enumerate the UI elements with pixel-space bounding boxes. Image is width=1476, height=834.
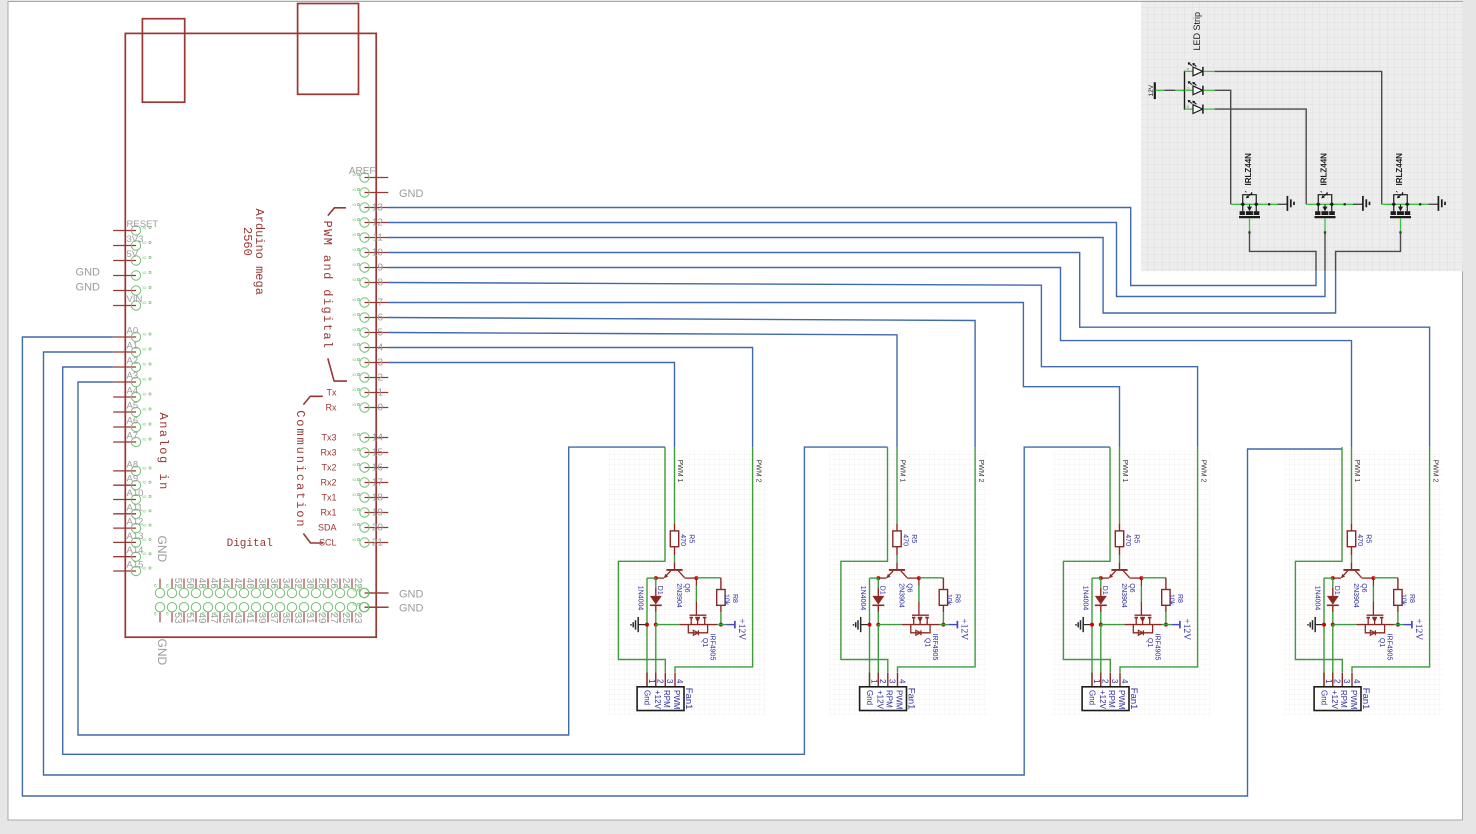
wire PWM1 net (fan3) (1119, 447, 1121, 523)
wire to +12V supply (fan2) (940, 624, 949, 626)
Arduino left pin A8 (113, 459, 151, 475)
svg-text:A0: A0 (127, 326, 139, 337)
Arduino bottom pin pair 7 (237, 578, 255, 624)
LED B (LED strip) (1185, 100, 1215, 114)
svg-text:11: 11 (373, 233, 384, 244)
wire +12V switched rail (fan2) (878, 624, 902, 626)
svg-text:Gnd: Gnd (643, 690, 652, 705)
wire LED anode bus (1184, 71, 1186, 110)
svg-text:io: io (143, 422, 147, 427)
svg-text:io: io (285, 584, 290, 588)
svg-text:io: io (143, 392, 147, 397)
svg-text:G: G (1187, 85, 1190, 90)
diode D1 1N4004 (fan1) (637, 578, 663, 612)
wire 12V to LED anodes (1156, 89, 1165, 91)
svg-text:io: io (201, 612, 206, 616)
svg-text:2N3904: 2N3904 (898, 583, 905, 608)
svg-text:+12V: +12V (876, 690, 885, 710)
wire net D10 to fan4 PWM2 (388, 253, 1430, 448)
svg-text:io: io (353, 277, 357, 282)
svg-text:io: io (353, 187, 357, 192)
svg-text:+12V: +12V (959, 618, 969, 640)
wire MOSFET Q4 source to ground (1429, 203, 1438, 205)
wire MOSFET Q2 source to ground (1278, 203, 1287, 205)
svg-text:0: 0 (377, 403, 383, 414)
Arduino right pin D1 (327, 387, 389, 399)
svg-text:20: 20 (372, 523, 384, 534)
svg-text:2: 2 (1333, 679, 1342, 684)
wire +12V switched rail (fan4) (1333, 624, 1357, 626)
LED G (LED strip) (1185, 81, 1215, 95)
svg-text:VIN: VIN (127, 294, 143, 305)
svg-text:IRF4905: IRF4905 (931, 634, 938, 661)
Arduino bottom pin pair 2 (177, 578, 195, 624)
wire RPM net (fan1) (618, 447, 665, 672)
wire net A1 to fan3 RPM (44, 352, 1111, 775)
svg-text:io: io (165, 584, 170, 588)
Arduino right pin D12 (353, 217, 389, 229)
wire net D7 to fan3 PWM1 (388, 303, 1120, 448)
wire to +12V supply (fan1) (717, 624, 726, 626)
node Q6 collector junction (fan3) (1139, 576, 1143, 580)
svg-text:PWM: PWM (1117, 690, 1126, 710)
resistor R5 470 (fan3) (1115, 524, 1139, 556)
svg-text:io: io (143, 465, 147, 470)
Arduino left pin A7 (113, 431, 151, 447)
wire Q6 collector to R8 (fan1) (696, 577, 721, 579)
wire MOSFET Q3 gate down (1324, 232, 1326, 271)
Arduino bottom pin pair 5 (213, 578, 231, 624)
svg-text:3: 3 (1110, 679, 1119, 684)
svg-text:+12V: +12V (736, 618, 746, 640)
svg-text:1: 1 (1092, 679, 1101, 684)
svg-text:io: io (143, 508, 147, 513)
svg-text:1: 1 (1324, 679, 1333, 684)
wire PWM2 net (fan4) (1352, 447, 1430, 672)
wire D1 cathode to +12V rail (fan2) (877, 612, 879, 625)
svg-text:4: 4 (1120, 679, 1129, 684)
svg-text:IRF4905: IRF4905 (1154, 634, 1161, 661)
svg-text:Rx2: Rx2 (320, 478, 336, 488)
wire R8 to +12V node (fan2) (942, 612, 944, 624)
node R8 +12V junction (fan3) (1164, 623, 1168, 627)
wire D1 junction to connector pin2 (fan4) (1332, 625, 1334, 687)
svg-text:io: io (353, 297, 357, 302)
wire net D4 to fan1 PWM2 (388, 348, 753, 448)
wire R5 to Q6 base (fan3) (1119, 555, 1121, 562)
svg-text:PWM 1: PWM 1 (1121, 460, 1128, 483)
svg-text:io: io (321, 584, 326, 588)
svg-text:R5: R5 (910, 534, 917, 543)
svg-text:io: io (143, 332, 147, 337)
MOSFET Q4 IRLZ44N (LED strip) (1382, 153, 1429, 234)
svg-text:R: R (1187, 66, 1190, 71)
svg-text:io: io (321, 612, 326, 616)
svg-text:Fan1: Fan1 (1128, 688, 1139, 710)
svg-text:io: io (353, 232, 357, 237)
wire to +12V supply (fan3) (1162, 624, 1171, 626)
wire net D13 to LED MOSFET Q2 gate (388, 208, 1316, 286)
svg-text:io: io (165, 612, 170, 616)
svg-text:D1: D1 (656, 586, 663, 595)
svg-text:R5: R5 (1133, 534, 1140, 543)
Arduino bottom pin pair 12 (297, 578, 315, 624)
resistor R8 10k (fan3) (1162, 578, 1183, 613)
MOSFET Q1 IRF4905 (fan1) (680, 578, 718, 660)
svg-text:io: io (143, 300, 147, 305)
svg-text:Q1: Q1 (1146, 638, 1153, 647)
wire Gnd line to connector pin1 (fan2) (869, 578, 871, 687)
fan driver sub-sheet 3 background (1052, 450, 1211, 716)
wire MOSFET Q4 gate down (1336, 232, 1401, 271)
Arduino right pin D14 (321, 432, 388, 444)
wire PWM2 net (fan3) (1120, 447, 1198, 672)
Arduino right pin D16 (321, 462, 388, 474)
svg-text:io: io (345, 612, 350, 616)
+12V supply symbol (fan4) (1403, 618, 1423, 640)
svg-text:A15: A15 (127, 560, 144, 571)
wire net D8 to fan3 PWM2 (388, 283, 1198, 448)
MOSFET Q2 IRLZ44N (LED strip) (1231, 153, 1278, 234)
wire net D5 to fan2 PWM1 (388, 333, 897, 448)
svg-text:PWM: PWM (1349, 690, 1358, 710)
transistor Q6 2N3904 (fan2) (878, 563, 919, 608)
wire R5 to Q6 base (fan1) (674, 555, 676, 562)
svg-text:io: io (143, 347, 147, 352)
LED strip sub-sheet background (1141, 2, 1463, 271)
Arduino Mega 2560 body U1 (125, 33, 376, 637)
svg-text:io: io (273, 612, 278, 616)
node ground junction (fan3) (1090, 623, 1094, 627)
wire net A2 to fan2 RPM (63, 367, 888, 754)
resistor R8 10k (fan1) (717, 578, 738, 613)
svg-text:GND: GND (76, 267, 101, 279)
wire emitter to Gnd line (fan4) (1324, 577, 1333, 579)
svg-text:10k: 10k (945, 594, 952, 606)
svg-text:PWM 1: PWM 1 (899, 460, 906, 483)
wire R8 to +12V node (fan3) (1165, 612, 1167, 624)
svg-text:PWM 2: PWM 2 (1431, 460, 1438, 483)
Arduino left pin A6 (113, 416, 151, 432)
wire to +12V supply (fan4) (1394, 624, 1403, 626)
svg-text:3: 3 (888, 679, 897, 684)
svg-text:5: 5 (377, 328, 383, 339)
svg-text:Q6: Q6 (905, 583, 912, 592)
Arduino left pin A9 (113, 474, 151, 490)
wire RPM net (fan4) (1295, 447, 1342, 672)
+12V supply symbol (fan1) (726, 618, 746, 640)
Arduino bottom pin pair 9 (261, 578, 279, 624)
Arduino right pin D11 (353, 232, 389, 244)
wire PWM1 net (fan4) (1351, 447, 1353, 523)
svg-text:io: io (143, 270, 147, 275)
svg-text:R5: R5 (1365, 534, 1372, 543)
svg-text:D1: D1 (878, 586, 885, 595)
svg-text:1: 1 (869, 679, 878, 684)
Arduino left pin A12 (113, 517, 151, 533)
svg-text:GND: GND (399, 188, 424, 200)
svg-text:A2: A2 (127, 356, 139, 367)
resistor R5 470 (fan4) (1347, 524, 1371, 556)
fan driver sub-sheet 2 background (830, 450, 989, 716)
Arduino right pin D7 (353, 297, 389, 309)
svg-text:io: io (353, 372, 357, 377)
node ground junction (fan1) (645, 623, 649, 627)
svg-text:2560: 2560 (240, 227, 254, 256)
svg-text:18: 18 (372, 493, 384, 504)
svg-text:io: io (237, 612, 242, 616)
svg-text:Analog in: Analog in (156, 413, 170, 491)
svg-text:PWM 2: PWM 2 (1199, 460, 1206, 483)
wire net D9 to fan4 PWM1 (388, 268, 1352, 448)
svg-text:1N4004: 1N4004 (859, 586, 866, 611)
svg-text:Digital: Digital (227, 538, 273, 550)
svg-text:Fan1: Fan1 (683, 688, 694, 710)
svg-text:Rx3: Rx3 (320, 448, 336, 458)
svg-text:io: io (309, 612, 314, 616)
svg-text:10: 10 (372, 248, 384, 259)
svg-text:470: 470 (901, 534, 908, 546)
node D1 cathode junction (fan2) (876, 623, 880, 627)
svg-text:io: io (143, 480, 147, 485)
wire MOSFET Q3 source to ground (1353, 203, 1362, 205)
wire Q6 collector to R8 (fan2) (919, 577, 944, 579)
Arduino right pin D9 (353, 262, 389, 274)
svg-text:A4: A4 (127, 386, 139, 397)
svg-text:4: 4 (675, 679, 684, 684)
svg-text:io: io (353, 312, 357, 317)
svg-text:PWM: PWM (672, 690, 681, 710)
svg-text:io: io (309, 584, 314, 588)
svg-text:RPM: RPM (1339, 690, 1348, 708)
svg-text:io: io (189, 612, 194, 616)
wire RPM net (fan3) (1063, 447, 1110, 672)
Arduino USB connector outline (142, 19, 184, 103)
node Q6 emitter junction (fan3) (1099, 576, 1103, 580)
svg-text:1: 1 (647, 679, 656, 684)
svg-text:R8: R8 (1408, 594, 1415, 603)
wire R8 to +12V node (fan1) (720, 612, 722, 624)
svg-text:io: io (333, 612, 338, 616)
svg-text:16: 16 (372, 463, 384, 474)
svg-text:A9: A9 (127, 474, 139, 485)
svg-text:IRLZ44N: IRLZ44N (1320, 153, 1329, 186)
fan driver sub-sheet 1 background (607, 450, 766, 716)
Arduino left pin A5 (113, 401, 151, 417)
svg-text:IRLZ44N: IRLZ44N (1395, 153, 1404, 186)
svg-text:IRF4905: IRF4905 (1386, 634, 1393, 661)
wire MOSFET Q2 gate down (1250, 232, 1317, 271)
wire R5 to Q6 base (fan4) (1351, 555, 1353, 562)
svg-text:19: 19 (372, 508, 384, 519)
Arduino bottom pin pair 11 (285, 578, 303, 624)
svg-text:io: io (225, 612, 230, 616)
svg-text:GND: GND (155, 536, 169, 563)
svg-text:IRF4905: IRF4905 (709, 634, 716, 661)
Arduino bottom pin pair 13 (309, 578, 327, 624)
svg-text:A13: A13 (127, 531, 144, 542)
svg-text:io: io (353, 247, 357, 252)
Arduino left pin A11 (113, 502, 151, 518)
Arduino right pin D3 (353, 357, 389, 369)
fan driver sub-sheet 4 background (1284, 450, 1443, 716)
Arduino left pin 3V3 (113, 234, 151, 250)
Arduino right pin GND-b2 (353, 602, 389, 612)
svg-text:io: io (353, 432, 357, 437)
wire net D12 to LED MOSFET Q3 gate (388, 223, 1325, 297)
Arduino bottom pin pair 16 (345, 578, 363, 624)
diode D1 1N4004 (fan2) (859, 578, 885, 612)
svg-text:io: io (153, 584, 158, 588)
svg-text:Tx1: Tx1 (321, 493, 336, 503)
Arduino left pin A1 (113, 341, 151, 357)
wire Gnd line to connector pin1 (fan4) (1323, 578, 1325, 687)
svg-text:GND: GND (76, 282, 101, 294)
svg-text:io: io (143, 285, 147, 290)
transistor Q6 2N3904 (fan4) (1333, 563, 1374, 608)
node R8 +12V junction (fan4) (1396, 623, 1400, 627)
svg-text:Tx2: Tx2 (321, 463, 336, 473)
Arduino left pin GND (76, 267, 152, 281)
Arduino bottom pin pair 14 (321, 578, 339, 624)
MOSFET Q1 IRF4905 (fan4) (1357, 578, 1395, 660)
svg-text:A3: A3 (127, 371, 139, 382)
svg-text:12V: 12V (1148, 84, 1155, 96)
svg-text:2N3904: 2N3904 (1352, 583, 1359, 608)
svg-text:A10: A10 (127, 488, 144, 499)
Arduino right pin D0 (326, 402, 389, 414)
svg-text:io: io (333, 584, 338, 588)
svg-text:A11: A11 (127, 502, 143, 513)
svg-text:io: io (353, 492, 357, 497)
+12V supply symbol (fan2) (949, 618, 969, 640)
svg-text:io: io (353, 522, 357, 527)
svg-text:Tx: Tx (327, 388, 337, 398)
svg-text:+12V: +12V (1098, 690, 1107, 710)
wire net D6 to fan2 PWM2 (388, 318, 975, 448)
Arduino left pin 5V (113, 249, 151, 265)
Arduino right pin D10 (353, 247, 389, 259)
MOSFET Q1 IRF4905 (fan2) (902, 578, 940, 660)
Arduino right pin D6 (353, 312, 389, 324)
svg-text:io: io (213, 584, 218, 588)
svg-text:LED Strip: LED Strip (1192, 12, 1202, 51)
svg-text:PWM 1: PWM 1 (1353, 460, 1360, 483)
wire PWM2 net (fan2) (898, 447, 976, 672)
wire RPM net (fan2) (841, 447, 888, 672)
svg-text:RPM: RPM (884, 690, 893, 708)
ground symbol (fan2) (853, 617, 868, 632)
svg-text:10k: 10k (1168, 594, 1175, 606)
Arduino bottom pin pair 4 (201, 578, 219, 624)
svg-text:17: 17 (372, 478, 384, 489)
ground symbol (LED strip 4) (1438, 196, 1445, 211)
svg-text:+12V: +12V (1413, 618, 1423, 640)
svg-text:io: io (353, 202, 357, 207)
svg-text:A6: A6 (127, 416, 139, 427)
MOSFET Q1 IRF4905 (fan3) (1125, 578, 1163, 660)
resistor R8 10k (fan2) (939, 578, 960, 613)
Arduino bottom pin pair 17 (357, 584, 389, 616)
wire Q6 collector to R8 (fan4) (1373, 577, 1398, 579)
svg-text:A7: A7 (127, 431, 139, 442)
svg-text:1N4004: 1N4004 (637, 586, 644, 611)
svg-text:4: 4 (377, 343, 383, 354)
svg-text:io: io (353, 217, 357, 222)
wire PWM2 net (fan1) (675, 447, 753, 672)
node ground junction (fan4) (1322, 623, 1326, 627)
wire PWM1 net (fan2) (896, 447, 898, 523)
svg-text:7: 7 (377, 298, 383, 309)
wire Gnd line to connector pin1 (fan3) (1091, 578, 1093, 687)
wire emitter to Gnd line (fan1) (647, 577, 656, 579)
svg-text:PWM 1: PWM 1 (676, 460, 683, 483)
wire net D11 to LED MOSFET Q4 gate (388, 238, 1336, 314)
svg-text:9: 9 (377, 263, 383, 274)
resistor R5 470 (fan1) (670, 524, 694, 556)
ground symbol (fan4) (1307, 617, 1322, 632)
resistor R8 10k (fan4) (1394, 578, 1415, 613)
svg-text:10k: 10k (1400, 594, 1407, 606)
svg-text:R8: R8 (953, 594, 960, 603)
svg-text:4: 4 (1352, 679, 1361, 684)
ground symbol (fan1) (630, 617, 645, 632)
svg-text:Q6: Q6 (683, 583, 690, 592)
Arduino right pin D15 (320, 447, 388, 459)
Arduino bottom pin pair 8 (249, 578, 267, 624)
svg-text:io: io (143, 437, 147, 442)
svg-text:RPM: RPM (662, 690, 671, 708)
svg-text:io: io (143, 255, 147, 260)
svg-text:Gnd: Gnd (865, 690, 874, 705)
svg-text:A8: A8 (127, 459, 139, 470)
svg-text:io: io (353, 342, 357, 347)
wire net A3 to fan1 RPM (78, 382, 665, 735)
svg-text:Q1: Q1 (1378, 638, 1385, 647)
svg-text:PWM 2: PWM 2 (754, 460, 761, 483)
svg-text:2: 2 (1101, 679, 1110, 684)
svg-text:15: 15 (372, 448, 384, 459)
wire D1 cathode to +12V rail (fan1) (655, 612, 657, 625)
Arduino bottom pin pair 10 (273, 578, 291, 624)
diode D1 1N4004 (fan3) (1082, 578, 1108, 612)
svg-text:10k: 10k (723, 594, 730, 606)
svg-text:Q6: Q6 (1360, 583, 1367, 592)
svg-text:GND: GND (155, 639, 169, 666)
svg-text:GND: GND (399, 603, 424, 615)
svg-text:io: io (143, 362, 147, 367)
svg-text:470: 470 (679, 534, 686, 546)
svg-text:21: 21 (372, 538, 384, 549)
ground symbol (fan3) (1075, 617, 1090, 632)
wire D1 cathode to +12V rail (fan4) (1332, 612, 1334, 625)
Arduino left pin A10 (113, 488, 151, 504)
wire LED R to MOSFET Q4 drain (1215, 71, 1382, 204)
svg-text:io: io (225, 584, 230, 588)
svg-text:RPM: RPM (1107, 690, 1116, 708)
Arduino right pin GND-top (353, 187, 389, 197)
svg-text:io: io (353, 507, 357, 512)
svg-text:R8: R8 (731, 594, 738, 603)
+12V supply symbol (fan3) (1171, 618, 1191, 640)
svg-text:io: io (353, 327, 357, 332)
svg-text:io: io (353, 447, 357, 452)
svg-text:D1: D1 (1101, 586, 1108, 595)
Arduino right pin D4 (353, 342, 389, 354)
Arduino left pin GND (76, 282, 152, 296)
svg-text:io: io (345, 584, 350, 588)
node R8 +12V junction (fan2) (941, 623, 945, 627)
